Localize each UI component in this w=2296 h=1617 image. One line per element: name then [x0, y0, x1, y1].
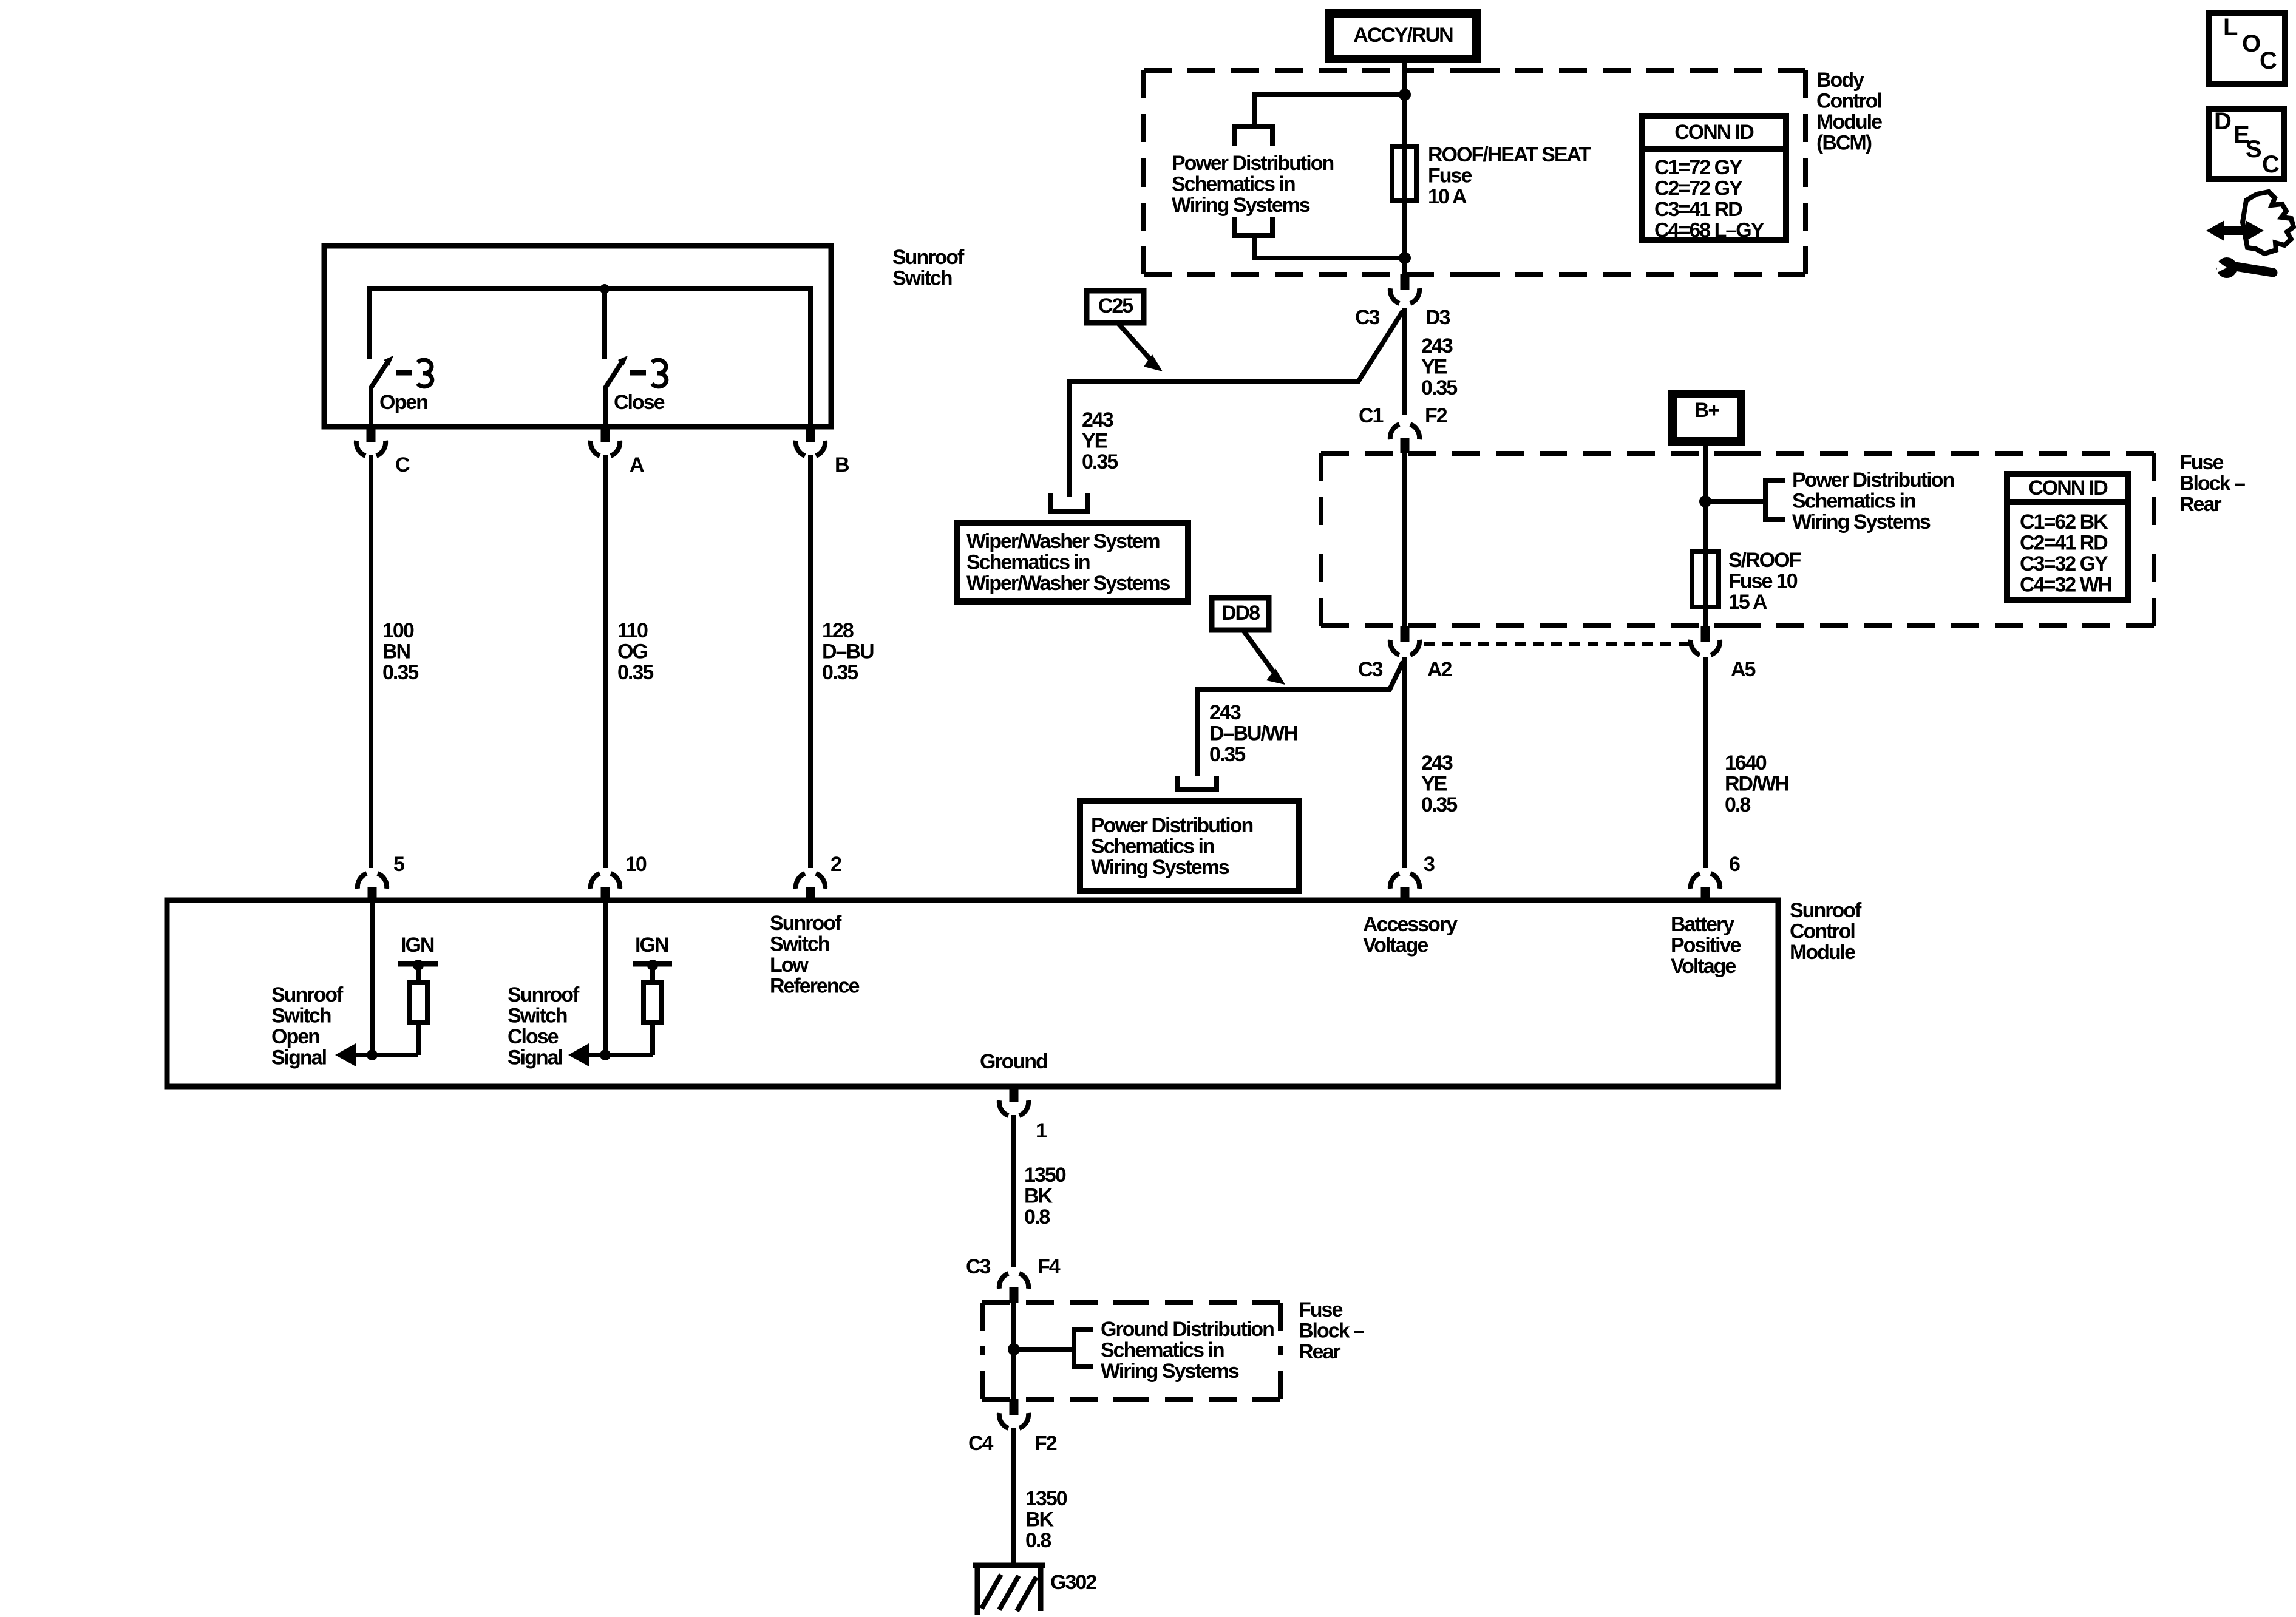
- wire 1640 RD/WH to pin 6: [1703, 657, 1708, 868]
- svg-text:D–BU: D–BU: [822, 640, 874, 663]
- svg-text:Wiring Systems: Wiring Systems: [1101, 1360, 1239, 1383]
- Fuse Block - Rear (ground) dashed box: [982, 1300, 1132, 1305]
- node junction ground distribution tap: [1008, 1343, 1020, 1355]
- reference bracket bottom (power distribution tap): [1235, 217, 1272, 236]
- connector pin 1 Ground (module bottom): [1010, 1086, 1019, 1102]
- svg-text:Voltage: Voltage: [1363, 934, 1428, 957]
- wire 1350 BK (upper): [1011, 1115, 1016, 1267]
- connector pin 3: [1401, 887, 1410, 903]
- svg-text:Ground Distribution: Ground Distribution: [1101, 1318, 1274, 1341]
- svg-text:Fuse: Fuse: [2179, 451, 2223, 474]
- connector pin B (switch): [806, 427, 815, 442]
- table CONN ID (BCM): [1642, 116, 1786, 240]
- svg-text:ACCY/RUN: ACCY/RUN: [1353, 24, 1453, 47]
- svg-text:ROOF/HEAT SEAT: ROOF/HEAT SEAT: [1428, 143, 1592, 166]
- fuse ROOF/HEAT SEAT 10 A: [1392, 146, 1416, 200]
- svg-text:C1: C1: [1359, 404, 1384, 427]
- connector C4/F2 (fuse block rear bottom): [1010, 1399, 1019, 1415]
- svg-text:C3: C3: [1358, 658, 1383, 681]
- wire 100 BN (C to pin 5): [369, 455, 373, 868]
- switch blade Close: [605, 361, 623, 388]
- svg-text:110: 110: [617, 619, 648, 642]
- svg-text:F4: F4: [1038, 1255, 1061, 1278]
- node junction open signal: [367, 1049, 378, 1060]
- svg-text:Sunroof: Sunroof: [1790, 899, 1862, 922]
- switch Close lower contact wire: [603, 387, 608, 429]
- arrow from C25 tag: [1119, 324, 1154, 364]
- svg-text:C3: C3: [1355, 306, 1380, 329]
- svg-text:YE: YE: [1421, 773, 1447, 796]
- svg-text:C1=62 BK: C1=62 BK: [2020, 510, 2108, 534]
- icon wrench: [2216, 257, 2237, 278]
- svg-text:3: 3: [1424, 853, 1435, 876]
- node junction upper (BCM feed tap): [1399, 89, 1411, 101]
- switch Close linkage dash: [630, 370, 646, 376]
- connector C3/F4 (fuse block rear top): [1010, 1287, 1019, 1303]
- svg-text:BN: BN: [382, 640, 410, 663]
- svg-text:F2: F2: [1034, 1432, 1057, 1455]
- svg-text:Power Distribution: Power Distribution: [1172, 152, 1333, 175]
- svg-text:Schematics in: Schematics in: [1101, 1339, 1224, 1362]
- svg-text:A5: A5: [1731, 658, 1756, 681]
- svg-text:C4=68 L–GY: C4=68 L–GY: [1654, 219, 1765, 242]
- svg-text:Body: Body: [1816, 69, 1864, 92]
- box Wiper/Washer System reference: [957, 523, 1188, 602]
- connector C1/F2 (fuse block top): [1401, 438, 1410, 453]
- svg-text:F2: F2: [1425, 404, 1447, 427]
- icon box DESC: [2209, 109, 2284, 179]
- wire pin 5 internal: [370, 903, 375, 1056]
- svg-text:Accessory: Accessory: [1363, 913, 1458, 936]
- svg-text:Wiper/Washer System: Wiper/Washer System: [966, 530, 1160, 553]
- svg-text:C3=41 RD: C3=41 RD: [1654, 198, 1742, 221]
- svg-text:CONN ID: CONN ID: [2028, 476, 2108, 500]
- svg-text:Fuse: Fuse: [1428, 164, 1472, 188]
- svg-text:Schematics in: Schematics in: [1792, 490, 1915, 513]
- Sunroof Control Module box: [167, 900, 1778, 1086]
- svg-text:1640: 1640: [1725, 751, 1767, 775]
- connector pin 2: [806, 887, 815, 903]
- wire 128 D-BU (B to pin 2): [808, 455, 813, 868]
- node junction close signal: [600, 1049, 611, 1060]
- node junction lower (BCM feed tap): [1399, 252, 1411, 264]
- svg-text:0.8: 0.8: [1025, 1529, 1051, 1552]
- svg-text:G302: G302: [1050, 1571, 1096, 1594]
- connector pin 6: [1701, 887, 1710, 903]
- svg-text:Module: Module: [1816, 110, 1882, 134]
- svg-text:10 A: 10 A: [1428, 185, 1467, 208]
- svg-text:Fuse: Fuse: [1299, 1298, 1342, 1321]
- svg-text:Battery: Battery: [1671, 913, 1734, 936]
- svg-text:243: 243: [1421, 334, 1453, 358]
- wire 243 YE to pin 3: [1402, 657, 1407, 868]
- svg-text:243: 243: [1209, 701, 1241, 724]
- svg-text:Low: Low: [770, 954, 809, 977]
- svg-text:100: 100: [382, 619, 414, 642]
- svg-text:Wiring Systems: Wiring Systems: [1792, 510, 1931, 534]
- svg-text:0.35: 0.35: [1209, 743, 1245, 766]
- IGN supply bar (close side): [633, 961, 672, 967]
- reference bracket (ground distribution): [1074, 1329, 1093, 1367]
- svg-text:Open: Open: [379, 391, 427, 414]
- svg-text:(BCM): (BCM): [1816, 132, 1872, 155]
- connector pin A (switch): [601, 427, 610, 442]
- svg-text:Block –: Block –: [2179, 472, 2245, 495]
- svg-text:15 A: 15 A: [1728, 591, 1767, 614]
- switch Close detent hook: [652, 360, 667, 387]
- svg-text:Sunroof: Sunroof: [892, 246, 965, 269]
- svg-text:D–BU/WH: D–BU/WH: [1209, 722, 1297, 745]
- svg-text:Signal: Signal: [271, 1046, 327, 1070]
- svg-text:BK: BK: [1025, 1508, 1055, 1531]
- svg-text:Reference: Reference: [770, 975, 860, 998]
- node junction B+ tap: [1699, 495, 1711, 507]
- wire resistor to close signal node: [605, 1053, 653, 1057]
- svg-text:C3: C3: [966, 1255, 991, 1278]
- svg-text:C4: C4: [968, 1432, 994, 1455]
- wire switch common to Close: [602, 289, 607, 359]
- wire switch common bus: [370, 289, 810, 429]
- node junction switch common: [600, 284, 610, 294]
- svg-text:IGN: IGN: [401, 934, 434, 957]
- svg-text:Sunroof: Sunroof: [770, 912, 842, 935]
- wire resistor to open signal node: [372, 1053, 418, 1057]
- wire B+ feed: [1703, 441, 1708, 626]
- svg-text:Wiper/Washer Systems: Wiper/Washer Systems: [966, 572, 1170, 595]
- svg-text:1350: 1350: [1025, 1487, 1067, 1510]
- svg-text:B: B: [835, 453, 849, 476]
- svg-text:C: C: [2262, 151, 2280, 178]
- svg-text:Control: Control: [1816, 90, 1881, 113]
- svg-text:2: 2: [830, 853, 841, 876]
- svg-text:D: D: [2214, 108, 2232, 135]
- svg-text:Sunroof: Sunroof: [271, 983, 344, 1006]
- connector pin 10: [601, 887, 610, 903]
- svg-text:Schematics in: Schematics in: [966, 551, 1090, 574]
- svg-text:C2=72 GY: C2=72 GY: [1654, 177, 1743, 200]
- tag C25 (connector callout): [1087, 291, 1144, 323]
- svg-text:10: 10: [625, 853, 647, 876]
- svg-text:1: 1: [1036, 1119, 1047, 1142]
- svg-text:BK: BK: [1024, 1185, 1053, 1208]
- svg-text:DD8: DD8: [1221, 602, 1260, 625]
- switch blade Open: [371, 361, 389, 388]
- wire branch 243 D-BU/WH (from C3/A2): [1197, 662, 1403, 776]
- arrow from DD8 tag: [1244, 631, 1275, 674]
- wire BCM internal tap top: [1254, 95, 1405, 128]
- wire 1350 BK (lower): [1011, 1428, 1016, 1568]
- svg-text:0.35: 0.35: [1082, 450, 1118, 473]
- wire B+ tap to bracket: [1705, 499, 1765, 504]
- connector pin C (switch): [367, 427, 376, 442]
- box Power Distribution reference (DD8 branch): [1080, 801, 1299, 891]
- svg-text:0.8: 0.8: [1024, 1205, 1050, 1229]
- svg-text:Voltage: Voltage: [1671, 955, 1736, 978]
- svg-text:Schematics in: Schematics in: [1091, 835, 1214, 858]
- svg-text:Schematics in: Schematics in: [1172, 173, 1295, 196]
- fuse S/ROOF 15 A: [1692, 552, 1719, 607]
- reference bracket (wiper/washer destination): [1050, 493, 1088, 512]
- wire accessory voltage through fuse block: [1402, 453, 1407, 626]
- icon box LOC: [2209, 13, 2285, 84]
- power feed box B+: [1673, 394, 1741, 441]
- wire ACCY/RUN feed (vertical main, x=2314): [1402, 59, 1407, 276]
- svg-text:C2=41 RD: C2=41 RD: [2020, 532, 2108, 555]
- svg-text:0.35: 0.35: [822, 661, 858, 684]
- svg-text:Signal: Signal: [508, 1046, 563, 1070]
- wire BCM internal tap bottom: [1254, 236, 1405, 258]
- svg-text:1350: 1350: [1024, 1164, 1066, 1187]
- reference bracket (power distribution, fuse block): [1765, 481, 1785, 520]
- svg-text:Fuse 10: Fuse 10: [1728, 570, 1798, 593]
- svg-text:C3=32 GY: C3=32 GY: [2020, 552, 2108, 575]
- inline connector dotted line: [1424, 642, 1689, 646]
- switch Open detent hook: [418, 360, 432, 387]
- IGN supply bar (open side): [398, 961, 438, 967]
- svg-text:D3: D3: [1425, 306, 1450, 329]
- svg-text:Block –: Block –: [1299, 1320, 1364, 1343]
- svg-text:Switch: Switch: [770, 933, 829, 956]
- connector pin 5: [368, 887, 377, 903]
- svg-text:RD/WH: RD/WH: [1725, 773, 1789, 796]
- svg-text:128: 128: [822, 619, 854, 642]
- tag DD8 (connector callout): [1212, 598, 1269, 630]
- svg-text:B+: B+: [1694, 399, 1720, 422]
- resistor pull-up (open): [416, 965, 421, 983]
- wire 110 OG (A to pin 10): [603, 455, 608, 868]
- Sunroof Switch box: [324, 246, 831, 427]
- svg-text:S/ROOF: S/ROOF: [1728, 549, 1801, 572]
- svg-text:Close: Close: [508, 1025, 559, 1048]
- Body Control Module dashed box: [1144, 68, 1475, 73]
- arrow Sunroof Switch Close Signal: [579, 1053, 605, 1057]
- svg-text:0.8: 0.8: [1725, 793, 1750, 816]
- svg-text:Module: Module: [1790, 941, 1855, 964]
- svg-text:C: C: [2260, 47, 2277, 74]
- svg-text:Power Distribution: Power Distribution: [1792, 469, 1954, 492]
- ground symbol G302: [973, 1563, 1045, 1568]
- arrow Sunroof Switch Open Signal: [346, 1053, 372, 1057]
- resistor pull-up (close): [650, 965, 655, 983]
- svg-text:Switch: Switch: [508, 1005, 567, 1028]
- svg-text:5: 5: [393, 853, 404, 876]
- table CONN ID (fuse block): [2007, 474, 2128, 600]
- Fuse Block - Rear dashed box: [1321, 451, 1737, 456]
- icon hand with double arrow: [2243, 192, 2294, 254]
- svg-text:C25: C25: [1098, 294, 1133, 317]
- svg-text:CONN ID: CONN ID: [1674, 121, 1754, 144]
- svg-text:243: 243: [1082, 408, 1113, 432]
- wire branch to wiper/washer (from C3/D3): [1069, 311, 1403, 497]
- svg-text:Wiring Systems: Wiring Systems: [1091, 856, 1229, 879]
- wire pin 10 internal: [603, 903, 608, 1056]
- svg-text:Rear: Rear: [1299, 1340, 1340, 1363]
- switch Open lower contact wire: [369, 387, 373, 429]
- connector A5 (fuse block bottom): [1701, 626, 1710, 642]
- svg-text:YE: YE: [1082, 430, 1108, 453]
- wire through ground fuse block: [1011, 1303, 1016, 1399]
- svg-text:IGN: IGN: [635, 934, 668, 957]
- power feed box ACCY/RUN: [1330, 13, 1476, 59]
- connector C3/A2 (fuse block bottom): [1401, 626, 1410, 642]
- svg-text:A2: A2: [1427, 658, 1452, 681]
- svg-text:0.35: 0.35: [1421, 376, 1457, 399]
- svg-text:Switch: Switch: [271, 1005, 331, 1028]
- reference bracket (power distribution destination): [1178, 776, 1217, 789]
- svg-text:Open: Open: [271, 1025, 319, 1048]
- svg-text:Positive: Positive: [1671, 934, 1741, 957]
- wire 243 YE to C1/F2: [1402, 308, 1407, 415]
- reference bracket top (power distribution tap): [1235, 127, 1272, 146]
- svg-text:Control: Control: [1790, 920, 1855, 943]
- svg-text:C1=72 GY: C1=72 GY: [1654, 156, 1743, 179]
- svg-text:OG: OG: [617, 640, 647, 663]
- switch Open linkage dash: [396, 370, 412, 376]
- wire ground tap to bracket: [1014, 1347, 1074, 1352]
- svg-text:C: C: [395, 453, 410, 476]
- svg-text:0.35: 0.35: [382, 661, 418, 684]
- svg-text:Rear: Rear: [2179, 493, 2221, 516]
- svg-text:O: O: [2242, 30, 2261, 57]
- svg-text:Close: Close: [614, 391, 665, 414]
- svg-text:Ground: Ground: [980, 1050, 1047, 1073]
- connector C3/D3 (BCM bottom): [1401, 274, 1410, 290]
- svg-text:6: 6: [1729, 853, 1740, 876]
- svg-text:YE: YE: [1421, 356, 1447, 379]
- svg-text:Sunroof: Sunroof: [508, 983, 580, 1006]
- svg-text:S: S: [2246, 136, 2262, 163]
- svg-text:L: L: [2223, 14, 2238, 41]
- svg-text:0.35: 0.35: [617, 661, 653, 684]
- svg-text:0.35: 0.35: [1421, 793, 1457, 816]
- svg-text:Wiring Systems: Wiring Systems: [1172, 194, 1310, 217]
- svg-text:Power Distribution: Power Distribution: [1091, 814, 1252, 837]
- svg-text:243: 243: [1421, 751, 1453, 775]
- svg-text:C4=32 WH: C4=32 WH: [2020, 574, 2112, 597]
- svg-text:Switch: Switch: [892, 267, 952, 290]
- svg-text:A: A: [630, 453, 644, 476]
